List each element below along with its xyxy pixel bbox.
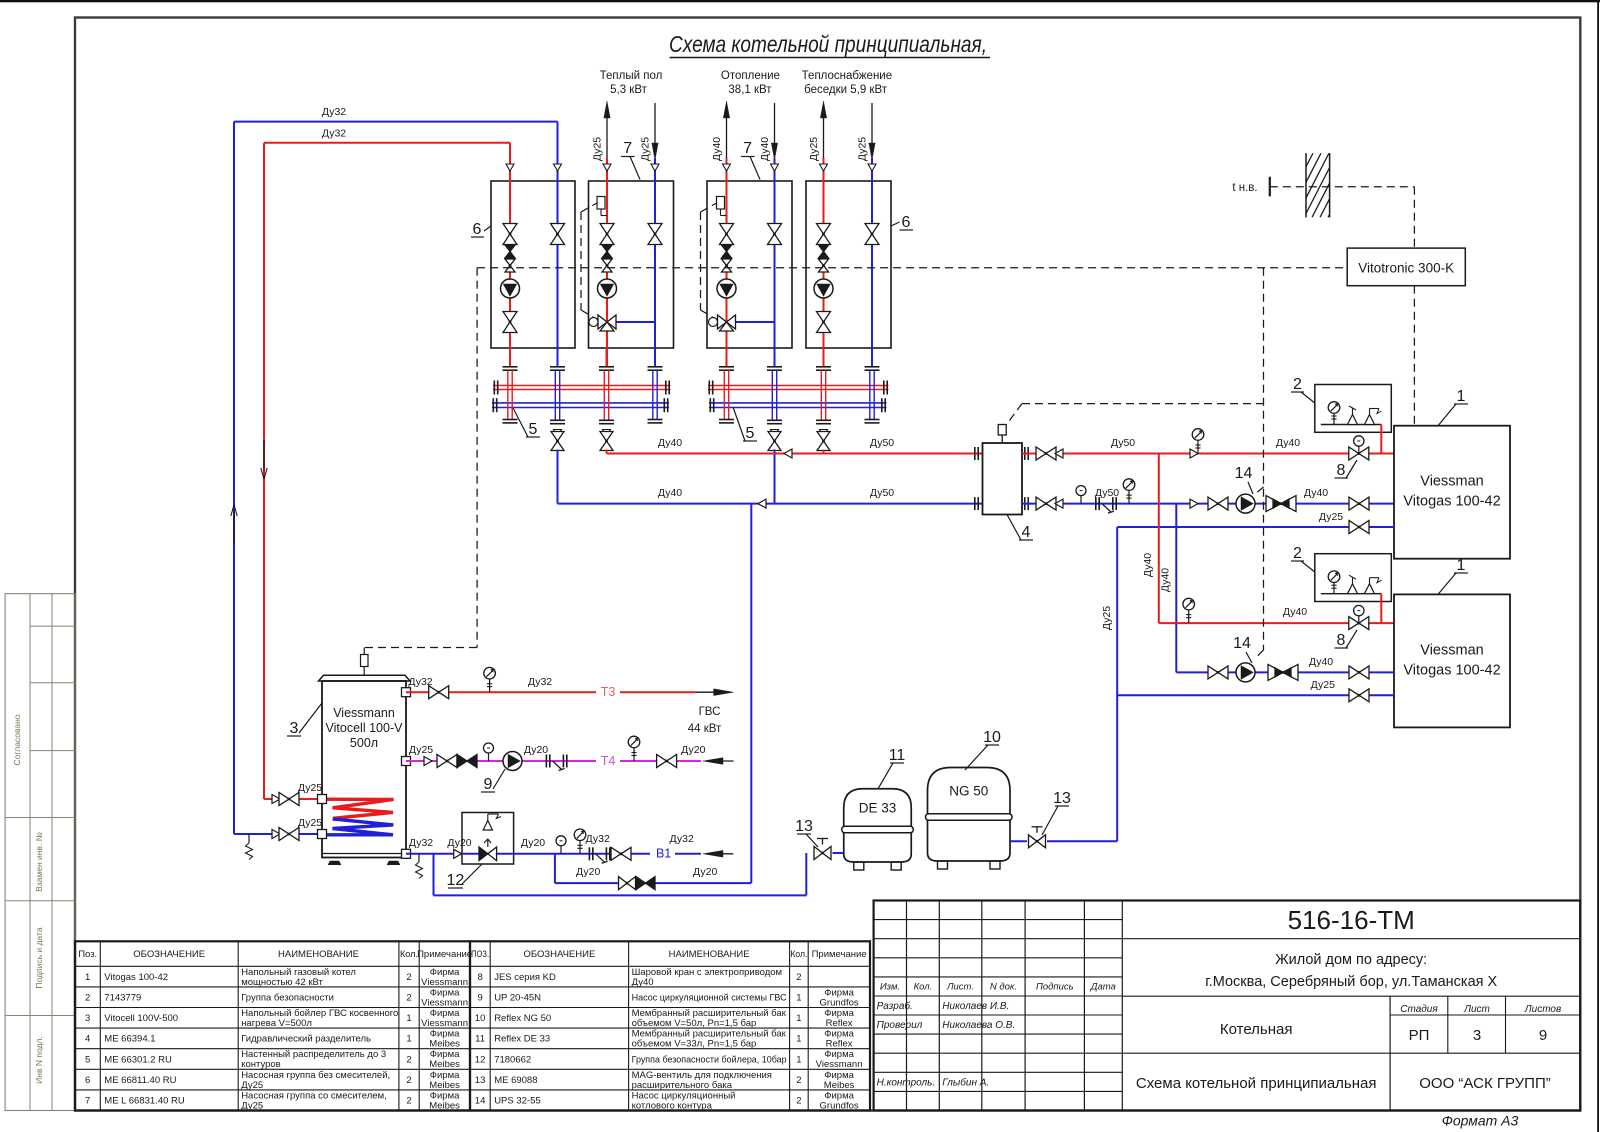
svg-text:Ду20: Ду20 bbox=[681, 744, 705, 756]
svg-text:Ду25: Ду25 bbox=[808, 137, 820, 161]
svg-text:2: 2 bbox=[796, 972, 801, 983]
svg-text:2: 2 bbox=[1293, 545, 1302, 562]
svg-text:Разраб.: Разраб. bbox=[877, 1000, 913, 1012]
svg-text:1: 1 bbox=[406, 1034, 411, 1045]
svg-text:9: 9 bbox=[483, 776, 492, 793]
svg-text:НАИМЕНОВАНИЕ: НАИМЕНОВАНИЕ bbox=[669, 949, 750, 960]
svg-text:2: 2 bbox=[796, 1075, 801, 1086]
svg-text:516-16-ТМ: 516-16-ТМ bbox=[1288, 905, 1415, 935]
svg-text:10: 10 bbox=[983, 729, 1001, 746]
svg-text:Ду40: Ду40 bbox=[1142, 553, 1154, 577]
svg-text:Meibes: Meibes bbox=[429, 1080, 460, 1091]
svg-text:Стадия: Стадия bbox=[1400, 1004, 1438, 1015]
svg-text:UPS 32-55: UPS 32-55 bbox=[494, 1096, 540, 1107]
svg-text:объемом V=50л, Pn=1,5 бар: объемом V=50л, Pn=1,5 бар bbox=[632, 1018, 757, 1029]
svg-text:Ду50: Ду50 bbox=[870, 437, 894, 449]
svg-text:10: 10 bbox=[475, 1013, 486, 1024]
svg-text:Кол.: Кол. bbox=[914, 982, 933, 993]
svg-text:Ду32: Ду32 bbox=[586, 833, 610, 845]
svg-text:г.Москва, Серебряный бор, ул.Т: г.Москва, Серебряный бор, ул.Таманская Х bbox=[1205, 974, 1497, 990]
svg-text:7: 7 bbox=[623, 140, 632, 157]
svg-text:Ду40: Ду40 bbox=[1304, 487, 1328, 499]
svg-text:NG 50: NG 50 bbox=[949, 784, 988, 799]
svg-text:Ду40: Ду40 bbox=[632, 977, 654, 988]
svg-text:38,1 кВт: 38,1 кВт bbox=[728, 84, 772, 96]
svg-text:Ду25: Ду25 bbox=[857, 137, 869, 161]
svg-text:Meibes: Meibes bbox=[429, 1100, 460, 1111]
svg-text:Ду25: Ду25 bbox=[640, 137, 652, 161]
svg-text:Ду25: Ду25 bbox=[592, 137, 604, 161]
svg-text:Взамен инв. №: Взамен инв. № bbox=[34, 832, 44, 892]
svg-text:DE 33: DE 33 bbox=[859, 801, 897, 816]
svg-text:4: 4 bbox=[1022, 524, 1031, 541]
svg-text:500л: 500л bbox=[350, 736, 378, 750]
svg-text:Формат А3: Формат А3 bbox=[1442, 1113, 1519, 1129]
svg-text:ME L 66831.40 RU: ME L 66831.40 RU bbox=[104, 1096, 185, 1107]
svg-text:Ду40: Ду40 bbox=[1276, 437, 1300, 449]
svg-text:Примечание: Примечание bbox=[812, 949, 867, 960]
svg-text:8: 8 bbox=[1337, 462, 1346, 479]
svg-text:расширительного бака: расширительного бака bbox=[632, 1080, 733, 1091]
svg-text:2: 2 bbox=[1293, 376, 1302, 393]
svg-text:8: 8 bbox=[1337, 632, 1346, 649]
svg-text:Ду40: Ду40 bbox=[1160, 568, 1172, 592]
svg-text:Reflex: Reflex bbox=[826, 1018, 853, 1029]
svg-text:Кол.: Кол. bbox=[400, 949, 418, 960]
svg-text:Изм.: Изм. bbox=[880, 982, 900, 993]
svg-text:Ду40: Ду40 bbox=[658, 487, 682, 499]
svg-text:Ду25: Ду25 bbox=[1311, 679, 1335, 691]
svg-text:Vitocell 100-V: Vitocell 100-V bbox=[326, 721, 404, 735]
svg-text:Т4: Т4 bbox=[601, 754, 616, 768]
svg-text:Viessmann: Viessmann bbox=[333, 706, 395, 720]
svg-text:Лист: Лист bbox=[1463, 1004, 1490, 1015]
svg-text:ME 69088: ME 69088 bbox=[494, 1075, 537, 1086]
svg-text:N док.: N док. bbox=[990, 982, 1017, 993]
svg-text:Подпись: Подпись bbox=[1036, 982, 1074, 993]
svg-text:Grundfos: Grundfos bbox=[820, 997, 859, 1008]
svg-text:Ду32: Ду32 bbox=[322, 128, 346, 140]
svg-text:Котельная: Котельная bbox=[1220, 1021, 1293, 1038]
svg-text:4: 4 bbox=[85, 1034, 90, 1045]
svg-text:7180662: 7180662 bbox=[494, 1054, 531, 1065]
svg-text:5,3 кВт: 5,3 кВт bbox=[610, 84, 648, 96]
svg-text:Reflex NG 50: Reflex NG 50 bbox=[494, 1013, 551, 1024]
svg-text:В1: В1 bbox=[656, 847, 671, 861]
svg-text:Насосная группа без смесителей: Насосная группа без смесителей, bbox=[241, 1070, 390, 1081]
svg-text:Grundfos: Grundfos bbox=[820, 1100, 859, 1111]
svg-text:Ду20: Ду20 bbox=[447, 837, 471, 849]
svg-text:7143779: 7143779 bbox=[104, 993, 141, 1004]
svg-text:2: 2 bbox=[406, 993, 411, 1004]
svg-text:Viessman: Viessman bbox=[1420, 642, 1483, 658]
svg-text:UP 20-45N: UP 20-45N bbox=[494, 993, 541, 1004]
svg-text:Ду25: Ду25 bbox=[298, 782, 322, 794]
svg-text:11: 11 bbox=[889, 747, 906, 764]
svg-text:Шаровой кран с электроприводом: Шаровой кран с электроприводом bbox=[632, 967, 782, 978]
svg-text:Схема котельной принципиальная: Схема котельной принципиальная, bbox=[669, 31, 987, 57]
svg-text:объемом V=33л, Pn=1,5 бар: объемом V=33л, Pn=1,5 бар bbox=[632, 1039, 757, 1050]
svg-text:9: 9 bbox=[477, 993, 482, 1004]
svg-text:3: 3 bbox=[290, 720, 299, 737]
svg-text:2: 2 bbox=[85, 993, 90, 1004]
svg-text:12: 12 bbox=[447, 872, 465, 889]
svg-text:Ду25: Ду25 bbox=[241, 1080, 263, 1091]
svg-text:6: 6 bbox=[902, 214, 911, 231]
svg-text:5: 5 bbox=[85, 1054, 90, 1065]
svg-text:Ду40: Ду40 bbox=[1283, 606, 1307, 618]
svg-text:Meibes: Meibes bbox=[824, 1080, 855, 1091]
svg-text:1: 1 bbox=[406, 1013, 411, 1024]
svg-text:Примечание: Примечание bbox=[417, 949, 472, 960]
svg-text:12: 12 bbox=[475, 1054, 486, 1065]
svg-text:ME 66811.40 RU: ME 66811.40 RU bbox=[104, 1075, 176, 1086]
svg-text:Ду50: Ду50 bbox=[1111, 437, 1135, 449]
svg-text:1: 1 bbox=[85, 972, 90, 983]
svg-text:ОБОЗНАЧЕНИЕ: ОБОЗНАЧЕНИЕ bbox=[524, 949, 596, 960]
svg-text:Теплоснабжение: Теплоснабжение bbox=[802, 70, 892, 82]
svg-text:Подпись и дата: Подпись и дата bbox=[34, 927, 44, 988]
svg-text:Viessmann: Viessmann bbox=[421, 977, 468, 988]
svg-text:ОБОЗНАЧЕНИЕ: ОБОЗНАЧЕНИЕ bbox=[133, 949, 205, 960]
svg-text:Viessman: Viessman bbox=[1420, 474, 1483, 490]
svg-text:5: 5 bbox=[746, 425, 755, 442]
svg-text:11: 11 bbox=[475, 1034, 485, 1045]
svg-text:Группа безопасности: Группа безопасности bbox=[241, 993, 334, 1004]
svg-text:Отопление: Отопление bbox=[721, 70, 780, 82]
svg-text:Ду32: Ду32 bbox=[322, 106, 346, 118]
svg-text:14: 14 bbox=[1233, 635, 1251, 652]
svg-text:Ду25: Ду25 bbox=[1319, 511, 1343, 523]
svg-text:Ду32: Ду32 bbox=[409, 837, 433, 849]
svg-text:Ду40: Ду40 bbox=[759, 137, 771, 161]
svg-text:2: 2 bbox=[406, 1096, 411, 1107]
svg-text:Ду50: Ду50 bbox=[1095, 487, 1119, 499]
svg-text:14: 14 bbox=[475, 1096, 486, 1107]
svg-text:1: 1 bbox=[796, 1034, 801, 1045]
svg-text:Vitogas 100-42: Vitogas 100-42 bbox=[104, 972, 168, 983]
svg-text:Ду20: Ду20 bbox=[521, 837, 545, 849]
svg-text:13: 13 bbox=[475, 1075, 486, 1086]
svg-text:ГВС: ГВС bbox=[699, 706, 721, 718]
svg-text:РП: РП bbox=[1409, 1027, 1430, 1044]
svg-text:8: 8 bbox=[477, 972, 482, 983]
svg-text:НАИМЕНОВАНИЕ: НАИМЕНОВАНИЕ bbox=[278, 949, 359, 960]
svg-text:Ду25: Ду25 bbox=[241, 1100, 263, 1111]
svg-text:Ду25: Ду25 bbox=[1101, 606, 1113, 630]
svg-text:1: 1 bbox=[796, 993, 801, 1004]
svg-text:t н.в.: t н.в. bbox=[1232, 182, 1257, 194]
svg-text:Насос циркуляционной системы Г: Насос циркуляционной системы ГВС bbox=[632, 993, 787, 1004]
svg-text:9: 9 bbox=[1539, 1027, 1547, 1044]
svg-text:нагрева V=500л: нагрева V=500л bbox=[241, 1018, 312, 1029]
svg-text:беседки 5,9 кВт: беседки 5,9 кВт bbox=[804, 84, 888, 96]
svg-text:2: 2 bbox=[406, 972, 411, 983]
svg-text:Гидравлический разделитель: Гидравлический разделитель bbox=[241, 1034, 371, 1045]
svg-text:Ду20: Ду20 bbox=[693, 866, 717, 878]
svg-text:Ду20: Ду20 bbox=[524, 744, 548, 756]
svg-text:Ду40: Ду40 bbox=[1309, 656, 1333, 668]
svg-text:Vitotronic 300-K: Vitotronic 300-K bbox=[1358, 261, 1454, 276]
svg-text:1: 1 bbox=[796, 1013, 801, 1024]
svg-text:Viessmann: Viessmann bbox=[421, 1018, 468, 1029]
svg-text:Viessmann: Viessmann bbox=[816, 1059, 863, 1070]
svg-text:1: 1 bbox=[1457, 557, 1466, 574]
svg-text:Viessmann: Viessmann bbox=[421, 997, 468, 1008]
svg-text:Vitocell 100V-500: Vitocell 100V-500 bbox=[104, 1013, 178, 1024]
svg-text:Согласовано: Согласовано bbox=[12, 714, 22, 765]
svg-text:Н.контроль.: Н.контроль. bbox=[877, 1077, 936, 1088]
svg-text:Ду50: Ду50 bbox=[870, 487, 894, 499]
svg-text:Глыбин А.: Глыбин А. bbox=[942, 1076, 989, 1088]
svg-text:Ду32: Ду32 bbox=[528, 676, 552, 688]
svg-text:44 кВт: 44 кВт bbox=[688, 723, 722, 735]
svg-text:Листов: Листов bbox=[1524, 1004, 1561, 1015]
svg-text:Vitogas 100-42: Vitogas 100-42 bbox=[1403, 662, 1500, 678]
svg-text:ME 66301.2 RU: ME 66301.2 RU bbox=[104, 1054, 172, 1065]
svg-text:Ду25: Ду25 bbox=[409, 744, 433, 756]
svg-text:2: 2 bbox=[406, 1054, 411, 1065]
svg-text:Жилой дом по адресу:: Жилой дом по адресу: bbox=[1275, 952, 1427, 968]
svg-text:7: 7 bbox=[743, 140, 752, 157]
svg-text:Ду40: Ду40 bbox=[658, 437, 682, 449]
svg-text:14: 14 bbox=[1235, 465, 1253, 482]
svg-text:Vitogas 100-42: Vitogas 100-42 bbox=[1403, 494, 1500, 510]
svg-text:Поз.: Поз. bbox=[78, 949, 97, 960]
svg-text:Николаева О.В.: Николаева О.В. bbox=[942, 1020, 1015, 1031]
svg-text:Проверил: Проверил bbox=[877, 1020, 923, 1031]
svg-text:Ду25: Ду25 bbox=[298, 817, 322, 829]
svg-text:Лист.: Лист. bbox=[946, 982, 974, 993]
svg-text:Группа безопасности бойлера, 1: Группа безопасности бойлера, 10бар bbox=[632, 1054, 787, 1065]
svg-text:котлового контура: котлового контура bbox=[632, 1100, 713, 1111]
svg-text:ME 66394.1: ME 66394.1 bbox=[104, 1034, 155, 1045]
svg-text:Схема котельной принципиальная: Схема котельной принципиальная bbox=[1136, 1075, 1377, 1092]
svg-text:Дата: Дата bbox=[1090, 982, 1116, 993]
svg-text:Reflex DE 33: Reflex DE 33 bbox=[494, 1034, 550, 1045]
svg-text:Ду32: Ду32 bbox=[670, 833, 694, 845]
svg-text:Теплый пол: Теплый пол bbox=[600, 70, 663, 82]
svg-text:Meibes: Meibes bbox=[429, 1039, 460, 1050]
svg-text:1: 1 bbox=[1457, 388, 1466, 405]
svg-text:13: 13 bbox=[795, 818, 813, 835]
svg-text:Meibes: Meibes bbox=[429, 1059, 460, 1070]
svg-text:ООО “АСК ГРУПП”: ООО “АСК ГРУПП” bbox=[1419, 1075, 1550, 1092]
svg-text:мощностью 42 кВт: мощностью 42 кВт bbox=[241, 977, 323, 988]
svg-text:ПОЗ.: ПОЗ. bbox=[471, 949, 489, 960]
svg-text:3: 3 bbox=[85, 1013, 90, 1024]
svg-text:JES серия KD: JES серия KD bbox=[494, 972, 556, 983]
svg-text:Инв N подл.: Инв N подл. bbox=[34, 1036, 44, 1084]
svg-text:Ду40: Ду40 bbox=[711, 137, 723, 161]
svg-text:Кол.: Кол. bbox=[790, 949, 807, 960]
svg-text:7: 7 bbox=[85, 1096, 90, 1107]
svg-text:контуров: контуров bbox=[241, 1059, 281, 1070]
svg-text:13: 13 bbox=[1053, 790, 1071, 807]
svg-text:2: 2 bbox=[406, 1075, 411, 1086]
svg-text:Ду20: Ду20 bbox=[576, 866, 600, 878]
svg-text:6: 6 bbox=[85, 1075, 90, 1086]
svg-text:1: 1 bbox=[796, 1054, 801, 1065]
svg-text:2: 2 bbox=[796, 1096, 801, 1107]
svg-text:3: 3 bbox=[1473, 1027, 1481, 1044]
svg-text:5: 5 bbox=[529, 421, 538, 438]
svg-text:Т3: Т3 bbox=[601, 685, 616, 699]
svg-text:Николаев И.В.: Николаев И.В. bbox=[942, 1001, 1009, 1012]
svg-text:Reflex: Reflex bbox=[826, 1039, 853, 1050]
svg-text:6: 6 bbox=[473, 221, 482, 238]
